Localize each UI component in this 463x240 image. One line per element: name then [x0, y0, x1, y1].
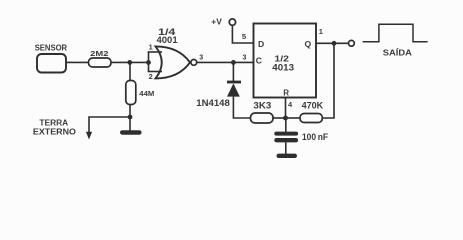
wire Q output to terminal: [316, 42, 349, 44]
supply +V terminal: [211, 17, 235, 26]
capacitor C1 100nF plate 1: [274, 132, 298, 136]
wire 2M2 to gate input junction: [111, 61, 149, 63]
svg-text:C: C: [256, 56, 262, 66]
wire to external earth arrow: [89, 117, 130, 134]
svg-text:2: 2: [149, 72, 153, 81]
wire 44M top lead: [129, 62, 131, 81]
svg-text:5: 5: [242, 32, 247, 41]
svg-text:1N4148: 1N4148: [196, 98, 230, 108]
resistor 44M: [126, 81, 155, 105]
svg-text:4001: 4001: [157, 35, 178, 45]
svg-text:3: 3: [243, 54, 247, 61]
node junction at earth: [128, 115, 133, 120]
svg-text:Q: Q: [305, 39, 312, 49]
wire feedback Q to 470K: [322, 43, 334, 118]
terminal output circle: [349, 40, 355, 46]
resistor 3K3: [251, 100, 274, 123]
svg-text:R: R: [283, 89, 289, 98]
wire earth electrode lead: [129, 117, 131, 131]
node junction 44M tap: [127, 60, 132, 65]
svg-text:3K3: 3K3: [253, 100, 271, 110]
resistor 470K: [300, 100, 324, 122]
node junction diode tap: [231, 60, 236, 65]
wire diode top lead: [232, 62, 234, 81]
svg-text:4: 4: [288, 100, 293, 109]
wire gate input stub pin2: [148, 71, 162, 73]
svg-text:SENSOR: SENSOR: [35, 43, 67, 52]
node gate input split junction: [146, 60, 151, 65]
wire capacitor bottom lead: [285, 142, 287, 154]
svg-text:SAÍDA: SAÍDA: [383, 48, 412, 57]
svg-text:1: 1: [149, 42, 153, 51]
svg-text:470K: 470K: [302, 100, 324, 110]
waveform symbol: [363, 24, 428, 42]
resistor 2M2: [89, 49, 112, 67]
wire gate output to 4013 C input: [197, 61, 254, 63]
diode 1N4148 triangle: [227, 83, 240, 96]
wire gate input stub pin1: [148, 51, 162, 53]
sensor box SENSOR: [35, 43, 67, 72]
svg-text:100 nF: 100 nF: [302, 132, 329, 142]
wire R pin: [285, 98, 287, 119]
svg-text:3: 3: [199, 54, 203, 61]
svg-text:2M2: 2M2: [90, 49, 108, 58]
wire +V to D input: [232, 26, 253, 44]
node junction R: [283, 116, 288, 121]
capacitor C1 100nF plate 2: [274, 138, 298, 142]
arrowhead external earth: [86, 132, 92, 140]
diode 1N4148 cathode bar: [227, 81, 241, 84]
svg-text:D: D: [258, 39, 264, 49]
NOR gate U1: [156, 46, 197, 78]
ground bar: [277, 154, 298, 158]
ground electrode bar: [120, 130, 142, 135]
svg-text:44M: 44M: [139, 89, 154, 98]
wire 3K3 to R node: [273, 117, 286, 119]
svg-text:EXTERNO: EXTERNO: [33, 127, 76, 136]
wire sensor to 2M2: [66, 61, 89, 63]
svg-text:+V: +V: [211, 17, 222, 26]
svg-text:TERRA: TERRA: [39, 119, 68, 128]
wire gate input split vertical: [148, 52, 150, 72]
label 1/4 4001: [157, 27, 178, 45]
wire 470K to R node: [286, 117, 301, 119]
svg-text:1: 1: [319, 27, 323, 36]
wire 44M bottom lead: [129, 105, 131, 118]
label TERRA EXTERNO: [33, 119, 76, 137]
wire diode anode to 3K3: [233, 97, 250, 118]
wire capacitor top lead: [285, 118, 287, 132]
svg-text:4013: 4013: [272, 62, 294, 72]
node junction feedback tap: [332, 41, 337, 46]
IC U2 box 1/2 4013: [254, 24, 317, 98]
